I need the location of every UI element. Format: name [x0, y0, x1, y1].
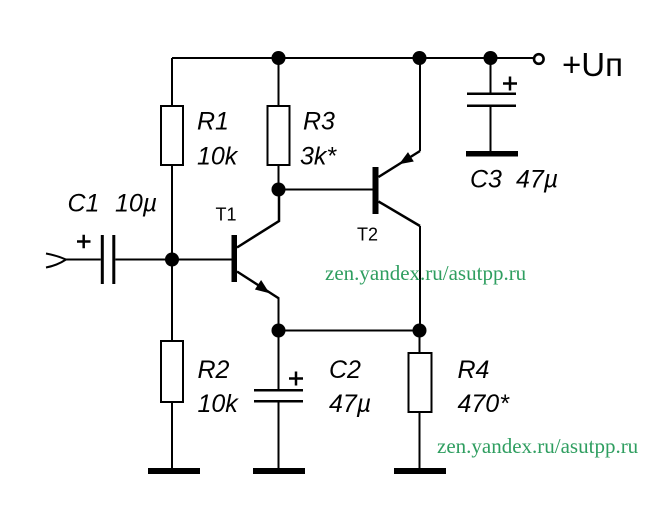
svg-text:zen.yandex.ru/asutpp.ru: zen.yandex.ru/asutpp.ru — [437, 434, 639, 458]
terminal +Up circle — [534, 54, 544, 64]
ground under C2 — [253, 468, 305, 474]
wire R1 bottom to node A — [171, 165, 173, 260]
transistor T2 — [373, 151, 421, 226]
node rail-T2 junction — [413, 51, 427, 65]
svg-text:zen.yandex.ru/asutpp.ru: zen.yandex.ru/asutpp.ru — [325, 261, 527, 285]
node rail-C3 junction — [484, 51, 498, 65]
wire T2 emitter to rail — [419, 58, 421, 151]
capacitor C2 — [254, 389, 303, 403]
svg-text:R2: R2 — [198, 356, 230, 384]
svg-text:R1: R1 — [197, 108, 229, 136]
capacitor C1 — [101, 235, 116, 284]
C3 polarity plus — [503, 77, 517, 91]
svg-text:47µ: 47µ — [329, 390, 371, 418]
wire input terminal to C1 — [66, 259, 101, 261]
wire node C to C2 top — [278, 331, 280, 390]
wire T2 collector to node D — [419, 226, 421, 331]
C1 polarity plus — [77, 235, 91, 248]
resistor R3 — [268, 106, 290, 165]
node A input junction — [165, 253, 179, 267]
node rail-R3 junction — [272, 51, 286, 65]
svg-text:C2: C2 — [329, 356, 361, 384]
wire node C to node D — [279, 330, 420, 332]
svg-text:T1: T1 — [216, 205, 237, 225]
wire rail to C3 top — [490, 58, 492, 93]
node D collector-R4 junction — [413, 324, 427, 338]
svg-text:R3: R3 — [303, 108, 335, 136]
C2 polarity plus — [289, 372, 303, 386]
resistor R1 — [161, 106, 183, 165]
svg-text:3k*: 3k* — [300, 143, 337, 171]
svg-text:10k: 10k — [197, 143, 239, 171]
wire rail to R3 top — [278, 58, 280, 106]
wire R2 bottom to ground — [171, 402, 173, 469]
node B R3-T1-T2 junction — [272, 183, 286, 197]
wire rail to R1 top — [171, 58, 173, 106]
ground under R2 — [148, 468, 200, 474]
ground under C3 — [466, 151, 518, 157]
svg-text:R4: R4 — [458, 356, 490, 384]
resistor R4 — [409, 353, 432, 412]
svg-text:C1: C1 — [68, 190, 100, 218]
wire T1 emitter to node C — [278, 298, 280, 331]
svg-text:47µ: 47µ — [516, 166, 558, 194]
wire R3 bottom to node B — [278, 165, 280, 190]
wire R4 bottom to ground — [419, 412, 421, 469]
node C emitter-C2 junction — [272, 324, 286, 338]
input terminal chevron — [46, 254, 66, 268]
wire node A to R2 top — [171, 260, 173, 342]
wire node B to T2 base — [279, 189, 373, 191]
svg-text:T2: T2 — [357, 225, 378, 245]
wire C3 bottom to ground — [490, 107, 492, 152]
ground under R4 — [394, 468, 446, 474]
wire node D to R4 top — [419, 331, 421, 354]
svg-text:+Uп: +Uп — [562, 46, 623, 83]
resistor R2 — [161, 341, 183, 402]
wire C1 to T1 base — [115, 259, 231, 261]
transistor T1 — [232, 190, 280, 299]
capacitor C3 — [467, 93, 516, 108]
svg-text:10µ: 10µ — [115, 190, 157, 218]
wire C2 bottom to ground — [278, 402, 280, 469]
svg-text:C3: C3 — [470, 166, 502, 194]
wire top power rail — [172, 57, 534, 59]
svg-text:10k: 10k — [198, 390, 240, 418]
svg-text:470*: 470* — [458, 390, 511, 418]
